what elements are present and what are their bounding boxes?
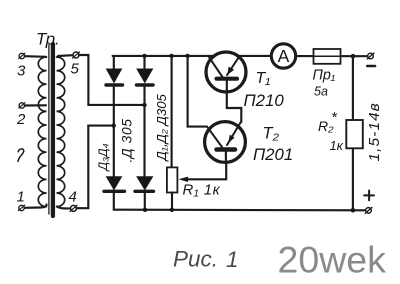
R1 wiper arrow — [186, 163, 226, 180]
svg-text:П201: П201 — [253, 145, 293, 164]
wire R1 bottom lead — [171, 193, 173, 210]
terminal 5 — [58, 52, 80, 78]
svg-text:Т₁: Т₁ — [256, 70, 271, 87]
svg-text:Тр.: Тр. — [36, 30, 60, 49]
winding mark — [18, 149, 24, 162]
svg-text:20wek: 20wek — [278, 239, 387, 281]
diode D2 branch wire — [143, 56, 145, 69]
T2 collector feed wire — [188, 56, 207, 127]
svg-text:Рис.: Рис. — [173, 246, 218, 271]
svg-text:Д₃Д₄: Д₃Д₄ — [96, 143, 110, 172]
bottom rail — [114, 209, 366, 212]
transistor T1 — [206, 52, 246, 122]
transformer secondary winding — [57, 57, 65, 207]
junction dot T2 collector feed — [185, 54, 189, 58]
svg-text:R₁ 1к: R₁ 1к — [183, 182, 221, 199]
R1 feed wire — [171, 56, 173, 167]
wire terminal4 to node B — [77, 126, 114, 209]
diode D4 — [137, 177, 153, 190]
diode D3 — [107, 177, 122, 190]
junction dot R1 bottom — [170, 208, 174, 212]
svg-text:Пр₁: Пр₁ — [313, 67, 336, 83]
diode D1 branch wire — [113, 56, 115, 69]
svg-text:3: 3 — [17, 62, 26, 79]
terminal 1 — [17, 189, 47, 211]
terminal plus — [364, 191, 374, 214]
top rail — [113, 55, 270, 57]
diode D2 — [137, 69, 153, 83]
svg-text:*: * — [331, 109, 338, 126]
junction dot D4 bottom — [143, 208, 147, 212]
terminal 3 — [17, 53, 46, 79]
junction dot R1 feed — [169, 54, 173, 58]
transformer primary winding — [38, 57, 46, 207]
wire terminal5 to node A — [79, 55, 145, 105]
svg-text:5: 5 — [71, 60, 80, 77]
svg-text:1: 1 — [226, 247, 239, 272]
svg-text:1,5-14в: 1,5-14в — [366, 102, 383, 161]
svg-text:2: 2 — [16, 111, 26, 128]
node A junction — [142, 103, 146, 107]
svg-text:П210: П210 — [244, 91, 285, 110]
top rail right of ammeter — [297, 55, 367, 57]
svg-text:1: 1 — [17, 189, 25, 206]
node B junction — [112, 123, 116, 127]
fuse Pr1 — [314, 49, 341, 64]
resistor R1 — [167, 167, 178, 192]
wire R2 branch — [352, 56, 354, 210]
transistor T2 — [205, 122, 246, 163]
terminal 4 — [57, 189, 77, 212]
svg-text:Д₁,Д₂ Д305: Д₁,Д₂ Д305 — [154, 93, 169, 162]
junction dot R2 bottom — [351, 208, 356, 213]
junction dot output top — [351, 54, 356, 59]
svg-text:4: 4 — [69, 189, 77, 206]
svg-text:Т₂: Т₂ — [263, 125, 280, 143]
svg-text:1к: 1к — [330, 138, 344, 153]
diode D1 — [107, 69, 122, 83]
svg-text:.Д 305: .Д 305 — [120, 118, 135, 162]
junction dot diode D2 top — [142, 54, 146, 58]
terminal minus — [367, 53, 375, 66]
svg-text:А: А — [278, 46, 290, 66]
svg-text:5а: 5а — [314, 84, 328, 98]
terminal 2 — [16, 103, 46, 128]
ammeter A — [271, 44, 295, 68]
transformer core — [48, 45, 50, 214]
resistor R2 — [346, 120, 363, 148]
